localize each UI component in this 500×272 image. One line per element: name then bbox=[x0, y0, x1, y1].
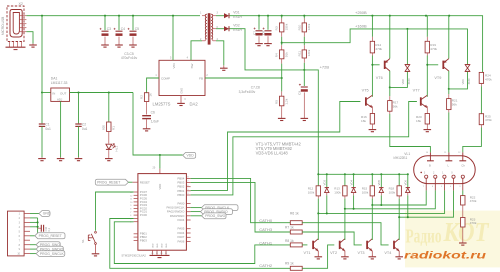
svg-text:56k: 56k bbox=[452, 102, 457, 106]
svg-text:100k: 100k bbox=[334, 191, 341, 195]
svg-text:C8: C8 bbox=[261, 31, 265, 35]
svg-text:4: 4 bbox=[450, 186, 451, 188]
svg-text:16k: 16k bbox=[416, 119, 421, 123]
svg-text:+72В: +72В bbox=[320, 64, 330, 69]
svg-text:1,0uF: 1,0uF bbox=[151, 120, 159, 124]
svg-text:VT3: VT3 bbox=[358, 251, 365, 255]
svg-text:470k: 470k bbox=[485, 77, 492, 81]
svg-text:0u1: 0u1 bbox=[82, 127, 88, 131]
svg-text:CATH2: CATH2 bbox=[259, 263, 273, 268]
svg-text:CATH1: CATH1 bbox=[259, 240, 273, 245]
svg-text:VT1: VT1 bbox=[304, 251, 311, 255]
svg-text:+160В: +160В bbox=[355, 23, 367, 28]
svg-text:COMP: COMP bbox=[161, 76, 170, 80]
svg-text:7: 7 bbox=[130, 212, 131, 214]
svg-text:6: 6 bbox=[130, 215, 131, 217]
svg-text:ИН122Б1: ИН122Б1 bbox=[394, 156, 408, 160]
svg-text:100k: 100k bbox=[308, 191, 315, 195]
svg-text:CATH3: CATH3 bbox=[259, 227, 273, 232]
svg-text:PC00: PC00 bbox=[140, 213, 148, 217]
svg-text:7: 7 bbox=[423, 186, 424, 188]
svg-text:OUT: OUT bbox=[60, 91, 67, 95]
svg-text:LM1117-33: LM1117-33 bbox=[51, 81, 68, 85]
svg-text:Радио: Радио bbox=[406, 227, 442, 248]
svg-text:GND: GND bbox=[162, 243, 164, 248]
svg-text:R8 1k: R8 1k bbox=[285, 239, 294, 243]
svg-text:STM32F030C3L6A2: STM32F030C3L6A2 bbox=[121, 253, 146, 257]
svg-text:16k: 16k bbox=[361, 119, 366, 123]
svg-text:VD6: VD6 bbox=[404, 180, 408, 186]
svg-text:В: В bbox=[429, 163, 431, 167]
svg-text:C7: C7 bbox=[252, 31, 256, 35]
svg-text:16: 16 bbox=[151, 253, 153, 255]
svg-text:470k: 470k bbox=[470, 221, 477, 225]
svg-text:VD9: VD9 bbox=[461, 79, 465, 85]
svg-text:6: 6 bbox=[432, 186, 433, 188]
svg-text:5: 5 bbox=[187, 189, 188, 191]
svg-text:11: 11 bbox=[444, 152, 446, 154]
svg-text:6: 6 bbox=[187, 185, 188, 187]
svg-text:PA04: PA04 bbox=[178, 218, 185, 222]
svg-text:470k: 470k bbox=[430, 47, 437, 51]
svg-text:Z160: Z160 bbox=[467, 78, 471, 84]
svg-text:0,1: 0,1 bbox=[48, 227, 51, 231]
svg-text:13: 13 bbox=[165, 253, 167, 255]
svg-text:91k: 91k bbox=[285, 52, 289, 57]
svg-text:R5: R5 bbox=[275, 100, 279, 104]
svg-text:ADJ: ADJ bbox=[57, 97, 63, 101]
svg-text:VT2: VT2 bbox=[330, 251, 337, 255]
svg-text:VD2: VD2 bbox=[233, 24, 240, 28]
svg-text:HL1: HL1 bbox=[115, 146, 119, 152]
svg-text:C1: C1 bbox=[45, 123, 49, 127]
svg-text:11: 11 bbox=[130, 199, 132, 201]
svg-text:5: 5 bbox=[441, 186, 442, 188]
svg-text:8: 8 bbox=[187, 177, 188, 179]
svg-text:VIN: VIN bbox=[172, 63, 176, 68]
svg-text:9: 9 bbox=[130, 205, 131, 207]
svg-text:7: 7 bbox=[187, 181, 188, 183]
svg-text:C3: C3 bbox=[107, 27, 111, 31]
svg-text:DA1: DA1 bbox=[51, 77, 58, 81]
svg-text:VD3-VD6 LL4148: VD3-VD6 LL4148 bbox=[256, 150, 289, 155]
svg-text:GND: GND bbox=[153, 243, 155, 248]
svg-text:820: 820 bbox=[102, 125, 106, 130]
svg-text:IN: IN bbox=[52, 91, 55, 95]
svg-text:12: 12 bbox=[458, 152, 460, 154]
svg-text:R10: R10 bbox=[297, 24, 301, 30]
svg-text:PB00: PB00 bbox=[177, 193, 184, 197]
svg-text:GND: GND bbox=[157, 243, 159, 248]
svg-text:8: 8 bbox=[130, 209, 131, 211]
svg-text:VD5: VD5 bbox=[377, 180, 381, 186]
svg-text:10: 10 bbox=[426, 152, 428, 154]
svg-text:C5: C5 bbox=[135, 27, 139, 31]
svg-text:C4: C4 bbox=[121, 27, 125, 31]
svg-text:120k: 120k bbox=[307, 23, 311, 30]
svg-text:56k: 56k bbox=[393, 104, 398, 108]
svg-text:R4: R4 bbox=[275, 53, 279, 57]
svg-text:14: 14 bbox=[160, 253, 162, 255]
svg-text:0u1: 0u1 bbox=[45, 127, 51, 131]
svg-text:100k: 100k bbox=[389, 191, 396, 195]
svg-text:PA06: PA06 bbox=[178, 240, 185, 244]
svg-text:R9 1k: R9 1k bbox=[285, 262, 294, 266]
svg-text:DA2: DA2 bbox=[190, 101, 199, 106]
svg-text:VD3: VD3 bbox=[323, 180, 327, 186]
svg-text:VD4: VD4 bbox=[349, 180, 353, 186]
svg-text:10: 10 bbox=[130, 202, 132, 204]
svg-text:100k: 100k bbox=[362, 191, 369, 195]
svg-text:9: 9 bbox=[187, 193, 188, 195]
svg-text:3: 3 bbox=[459, 186, 460, 188]
svg-text:R1: R1 bbox=[112, 126, 116, 130]
svg-text:VT4: VT4 bbox=[384, 251, 391, 255]
svg-text:Z160: Z160 bbox=[407, 78, 411, 84]
svg-text:VT9: VT9 bbox=[434, 76, 441, 80]
svg-text:PROG_SWO: PROG_SWO bbox=[205, 214, 225, 218]
svg-text:120k: 120k bbox=[307, 49, 311, 56]
svg-text:Ch: Ch bbox=[461, 163, 465, 167]
svg-text:X2: X2 bbox=[19, 2, 23, 6]
svg-text:470uFx16v: 470uFx16v bbox=[121, 56, 138, 60]
svg-text:470k: 470k bbox=[470, 199, 477, 203]
svg-text:1k: 1k bbox=[149, 93, 153, 97]
svg-text:150k: 150k bbox=[285, 23, 289, 30]
svg-text:PB03: PB03 bbox=[140, 238, 147, 242]
svg-text:3,3uFx400v: 3,3uFx400v bbox=[239, 90, 256, 94]
svg-text:C2: C2 bbox=[82, 123, 86, 127]
svg-text:PROG_RESET: PROG_RESET bbox=[97, 180, 120, 184]
svg-text:RESET: RESET bbox=[140, 180, 150, 184]
svg-text:PROG_RESET: PROG_RESET bbox=[39, 234, 62, 238]
svg-text:FB: FB bbox=[199, 76, 203, 80]
svg-text:1,2k: 1,2k bbox=[285, 98, 289, 104]
svg-text:470k: 470k bbox=[485, 118, 492, 122]
svg-text:S1: S1 bbox=[81, 239, 85, 243]
svg-text:VD8: VD8 bbox=[401, 79, 405, 85]
svg-text:GND: GND bbox=[166, 243, 168, 248]
svg-text:VDD: VDD bbox=[187, 154, 195, 158]
svg-text:VT6: VT6 bbox=[376, 76, 383, 80]
svg-text:VT7: VT7 bbox=[413, 88, 420, 92]
svg-text:470k: 470k bbox=[375, 47, 382, 51]
svg-text:R11: R11 bbox=[297, 51, 301, 57]
svg-text:PROG_SWCLK: PROG_SWCLK bbox=[40, 252, 65, 256]
svg-text:VDD: VDD bbox=[158, 184, 162, 190]
svg-text:R3: R3 bbox=[275, 26, 279, 30]
svg-text:MICRO-USB: MICRO-USB bbox=[1, 17, 5, 35]
svg-text:C6: C6 bbox=[151, 111, 155, 115]
svg-text:GND: GND bbox=[43, 212, 51, 216]
svg-text:12: 12 bbox=[130, 195, 132, 197]
svg-text:CATH0: CATH0 bbox=[259, 218, 273, 223]
svg-text:SW: SW bbox=[190, 63, 194, 68]
svg-text:VT5: VT5 bbox=[362, 88, 369, 92]
svg-text:GND: GND bbox=[180, 88, 184, 94]
svg-text:radiokot.ru: radiokot.ru bbox=[404, 251, 486, 262]
svg-text:R2: R2 bbox=[140, 95, 144, 99]
svg-text:C9: C9 bbox=[298, 91, 302, 95]
svg-text:R6 1k: R6 1k bbox=[290, 211, 299, 215]
svg-text:+250В: +250В bbox=[355, 10, 367, 15]
svg-text:15: 15 bbox=[156, 253, 158, 255]
svg-text:LM2577S: LM2577S bbox=[153, 101, 171, 106]
svg-text:R7 1k: R7 1k bbox=[285, 225, 294, 229]
